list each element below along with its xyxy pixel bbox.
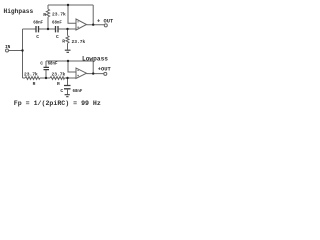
svg-text:68nF: 68nF [73, 90, 83, 94]
svg-text:23.7k: 23.7k [52, 71, 66, 77]
svg-text:68nF: 68nF [48, 63, 58, 67]
svg-text:C: C [60, 88, 63, 94]
svg-text:23.7k: 23.7k [24, 72, 38, 78]
svg-text:68nF: 68nF [33, 22, 43, 26]
svg-text:Fp = 1/(2piRC) = 99 Hz: Fp = 1/(2piRC) = 99 Hz [14, 100, 101, 107]
svg-text:R: R [57, 81, 60, 87]
svg-text:C: C [40, 61, 43, 67]
svg-text:IN: IN [5, 45, 11, 50]
svg-text:23.7k: 23.7k [52, 11, 66, 17]
svg-text:Highpass: Highpass [4, 8, 34, 15]
svg-text:68nF: 68nF [52, 22, 62, 26]
svg-text:+OUT: +OUT [98, 67, 112, 73]
svg-text:C: C [36, 34, 39, 40]
svg-text:R: R [33, 81, 36, 87]
svg-text:R: R [43, 12, 46, 18]
svg-text:C: C [56, 34, 59, 40]
svg-text:+ OUT: + OUT [97, 18, 114, 24]
svg-text:23.7k: 23.7k [72, 39, 86, 45]
svg-text:R: R [62, 39, 65, 45]
svg-text:Lowpass: Lowpass [82, 55, 108, 62]
